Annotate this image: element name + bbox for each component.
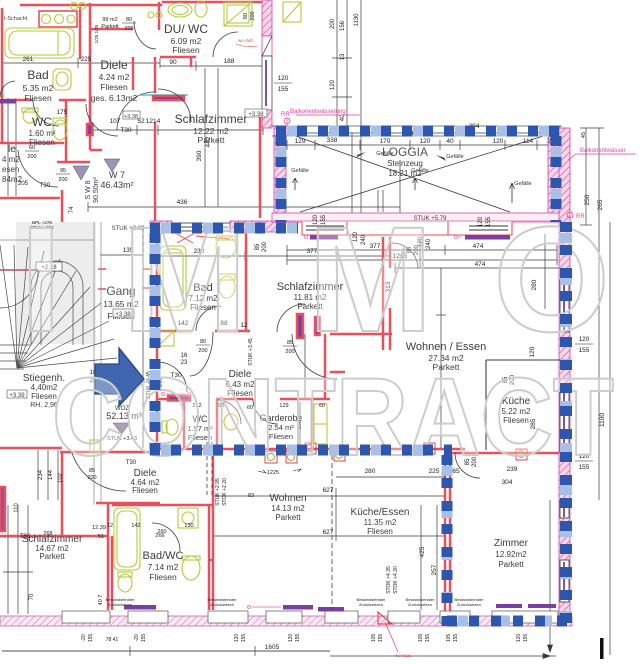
svg-text:wo caas: wo caas	[395, 653, 412, 658]
dimension kueche verticals	[440, 268, 442, 448]
svg-text:120: 120	[234, 634, 240, 643]
svg-text:STOK +4.35: STOK +4.35	[386, 566, 392, 594]
svg-text:Balkonentwässerung: Balkonentwässerung	[290, 109, 346, 115]
boundary mid vertical pale	[442, 455, 453, 626]
level box gang	[113, 309, 134, 317]
wall WC left	[183, 399, 186, 448]
wohnen/kueche-essen dashed divider	[331, 455, 333, 610]
boundary loggia right pale	[551, 136, 562, 222]
svg-text:78 41: 78 41	[106, 637, 119, 643]
svg-text:142: 142	[131, 523, 140, 529]
door arc Schlafzimmer SW	[277, 304, 305, 332]
sink WC topleft	[23, 109, 37, 123]
svg-text:155: 155	[88, 634, 94, 643]
boundary loggia top dark	[276, 126, 562, 137]
window bottom 1	[62, 611, 110, 623]
svg-text:+3.39: +3.39	[9, 393, 25, 399]
svg-text:12.92m2: 12.92m2	[495, 550, 527, 559]
dimension left bottom verticals	[7, 505, 9, 614]
svg-text:Zurücksetzen: Zurücksetzen	[359, 602, 383, 607]
svg-text:T30: T30	[20, 534, 31, 540]
bathtub top-left	[5, 28, 74, 58]
svg-text:Zurücksetzen: Zurücksetzen	[108, 602, 132, 607]
wall badwc inner stub	[208, 559, 213, 562]
svg-text:83: 83	[248, 493, 254, 499]
svg-text:170: 170	[380, 138, 391, 145]
svg-text:40 7: 40 7	[98, 595, 104, 606]
svg-text:Zurücksetzen: Zurücksetzen	[210, 602, 234, 607]
svg-text:T30: T30	[120, 127, 132, 134]
red corner flag zimmer	[378, 612, 392, 624]
door arc Bad middle	[190, 332, 213, 376]
boundary south main dark	[150, 445, 452, 456]
svg-text:268: 268	[43, 531, 52, 537]
svg-text:11.35 m2: 11.35 m2	[364, 518, 397, 527]
door arc left corridor	[86, 104, 118, 136]
purple bar corridor	[87, 124, 93, 135]
door arc Bad-WC topleft	[33, 100, 59, 126]
door arc badwc	[152, 523, 180, 551]
pink leader right	[568, 154, 636, 160]
svg-text:Bad/WC: Bad/WC	[143, 550, 184, 562]
door arc WC topleft entry	[0, 81, 15, 97]
svg-text:85: 85	[255, 243, 261, 250]
svg-text:14.13 m2: 14.13 m2	[271, 504, 305, 513]
svg-text:175: 175	[57, 109, 68, 116]
svg-text:155: 155	[278, 86, 289, 93]
svg-text:225: 225	[81, 56, 92, 63]
wall WC right	[65, 100, 68, 162]
svg-text:Zimmer: Zimmer	[494, 538, 529, 549]
boundary loggia top pale	[276, 126, 562, 137]
svg-text:155: 155	[523, 634, 529, 643]
wall left of Diele 4.24	[89, 3, 92, 150]
purple sill bottom 3	[496, 604, 522, 608]
svg-text:STOK +2.20: STOK +2.20	[222, 478, 228, 506]
wall diele464 bottom	[96, 502, 160, 505]
purple sill bottom 1	[124, 605, 156, 610]
svg-text:WC: WC	[32, 115, 52, 129]
svg-text:51: 51	[98, 534, 104, 540]
svg-text:Gefälle: Gefälle	[291, 168, 308, 174]
toilet WC center	[166, 419, 178, 435]
svg-text:338: 338	[327, 137, 338, 144]
svg-text:5.35 m2: 5.35 m2	[23, 83, 54, 93]
wall left corridor bottom	[57, 161, 90, 164]
svg-text:Gefälle: Gefälle	[446, 154, 463, 160]
wall schlafzimmer top left jog	[90, 149, 102, 152]
svg-text:esen: esen	[2, 165, 19, 174]
svg-text:200: 200	[27, 154, 36, 160]
wall badwc-bottom left	[107, 503, 110, 610]
boundary top main pale	[150, 223, 298, 234]
dimension loggia inner verticals	[351, 133, 353, 222]
svg-text:Küche/Essen: Küche/Essen	[351, 507, 410, 518]
door arc Bad up	[196, 306, 221, 331]
window bottom 6	[388, 611, 420, 623]
wall center apt left under dashes	[156, 225, 159, 362]
svg-text:120: 120	[516, 634, 522, 643]
bike box top right	[283, 2, 301, 22]
boundary bottom dark	[447, 616, 572, 627]
svg-text:wo-duft: wo-duft	[238, 38, 254, 43]
svg-text:155: 155	[453, 634, 459, 643]
blue arrow	[95, 348, 144, 406]
dimension under loggia chain	[160, 255, 390, 257]
wall right of Schlafzimmer-top	[259, 110, 262, 218]
svg-text:627: 627	[323, 487, 334, 494]
schlafzimmer-mid window dashed	[142, 228, 144, 250]
svg-text:200: 200	[124, 26, 133, 32]
wall stair top stub	[56, 230, 68, 233]
svg-text:474: 474	[473, 243, 484, 250]
pink circleline window1	[305, 236, 463, 239]
pink line under band	[272, 220, 560, 222]
terrace door frame	[347, 221, 448, 235]
stair stringer U	[41, 271, 73, 345]
bathtub Bad middle	[160, 246, 186, 310]
svg-text:200: 200	[330, 18, 336, 29]
dimension wohnen-essen inner	[419, 240, 421, 268]
svg-text:80: 80	[126, 17, 132, 23]
svg-text:120: 120	[330, 79, 336, 90]
loggia top thin lines	[272, 125, 562, 127]
wall exterior DU/WC right	[262, 0, 272, 36]
dimension gang verticals	[142, 228, 144, 448]
window top wall 1	[302, 221, 347, 235]
svg-text:Parkett: Parkett	[101, 24, 119, 30]
svg-text:105: 105	[446, 634, 452, 643]
svg-text:120: 120	[493, 138, 504, 145]
svg-text:Gefälle: Gefälle	[411, 168, 428, 174]
basin DU/WC	[168, 3, 192, 17]
outlet symbols south wall	[265, 443, 527, 463]
svg-text:200: 200	[250, 11, 256, 20]
svg-text:205: 205	[18, 181, 29, 187]
svg-text:155: 155	[486, 216, 492, 227]
svg-text:90: 90	[169, 59, 177, 66]
stair right wall	[93, 222, 95, 505]
wall sink counter box	[39, 11, 77, 27]
svg-text:234: 234	[38, 469, 44, 480]
svg-text:114: 114	[523, 138, 534, 145]
purple bar left edge low	[0, 487, 5, 531]
svg-text:Parkett: Parkett	[275, 513, 301, 522]
wall gang door frame marks	[98, 268, 106, 270]
svg-text:W 7: W 7	[109, 170, 125, 180]
window right 4	[560, 560, 569, 602]
window bottom 3	[208, 611, 248, 623]
wall WC bottom	[0, 142, 64, 145]
svg-text:474: 474	[475, 261, 486, 268]
level box stiegenhaus	[7, 390, 27, 398]
kueche partition	[485, 360, 487, 450]
svg-text:95: 95	[60, 168, 66, 174]
svg-text:45: 45	[581, 132, 587, 138]
svg-text:200: 200	[262, 241, 268, 252]
dimension schlafzimmer mid vertical	[204, 68, 206, 207]
boundary bottom pale	[447, 616, 572, 627]
svg-text:1605: 1605	[265, 644, 280, 651]
svg-text:12: 12	[107, 523, 113, 529]
toilet WC topleft	[53, 120, 67, 140]
svg-text:12.39: 12.39	[92, 525, 106, 531]
wall duct right of bath	[79, 7, 82, 59]
door arc apt entry	[157, 362, 187, 392]
toilet DU/WC	[195, 1, 207, 17]
svg-text:120: 120	[278, 75, 289, 82]
window right 2	[560, 390, 569, 452]
svg-text:STOK +4.20: STOK +4.20	[393, 566, 399, 594]
wall diele464 left	[61, 452, 64, 535]
wall top outer left	[20, 4, 162, 7]
stair level box +2.18	[36, 262, 62, 271]
svg-text:Fliesen: Fliesen	[100, 82, 128, 92]
bathtub badwc	[114, 508, 140, 570]
sink circles counter	[42, 15, 51, 24]
door arc DU/WC	[213, 32, 238, 57]
svg-text:CONTRACT: CONTRACT	[52, 356, 614, 479]
toilet badwc	[118, 574, 132, 592]
level box diele left	[123, 111, 140, 119]
svg-text:99 m2: 99 m2	[102, 17, 117, 23]
door arc Garderobe	[253, 399, 278, 424]
window bottom 8	[492, 611, 558, 623]
dimension line 436	[88, 206, 400, 208]
svg-text:Diele: Diele	[100, 58, 128, 72]
svg-text:ges. 6.13m2: ges. 6.13m2	[91, 93, 138, 103]
window bottom 4	[266, 611, 302, 623]
svg-text:Wohnen: Wohnen	[269, 493, 306, 504]
svg-text:DU/ WC: DU/ WC	[164, 22, 208, 36]
svg-text:40: 40	[446, 138, 454, 145]
svg-text:Fliesen: Fliesen	[24, 93, 52, 103]
door arc top corridor	[134, 21, 156, 49]
purple sill 306	[306, 227, 318, 231]
svg-text:105: 105	[418, 634, 424, 643]
boundary south main pale	[150, 445, 452, 456]
boundary left main dark	[150, 233, 161, 450]
washer badwc	[178, 508, 198, 528]
svg-text:85: 85	[287, 340, 293, 346]
svg-text:200: 200	[58, 177, 67, 183]
svg-text:257: 257	[431, 564, 438, 575]
door arc iele	[18, 150, 58, 187]
door arc Diele-Wohnen	[292, 334, 337, 379]
wall exterior bottom band	[0, 616, 572, 626]
svg-text:155: 155	[425, 634, 431, 643]
teal window line	[141, 94, 188, 96]
svg-text:7.14 m2: 7.14 m2	[148, 562, 179, 572]
wall apartment south under dashes	[150, 448, 465, 451]
svg-text:70: 70	[29, 593, 35, 600]
stair treads bottom-left	[0, 344, 30, 346]
boundary loggia left dark	[276, 136, 287, 222]
svg-text:120: 120	[288, 634, 294, 643]
triangle marker WOZ	[113, 423, 130, 434]
svg-text:le: le	[8, 144, 16, 155]
purple bar schlaf door	[297, 314, 303, 338]
boundary top main dark	[150, 223, 298, 234]
svg-text:260: 260	[157, 529, 166, 535]
triangle marker W7	[73, 166, 89, 180]
svg-text:188: 188	[224, 58, 235, 65]
svg-text:4.24 m2: 4.24 m2	[99, 72, 130, 82]
stair shading	[16, 222, 96, 344]
wall loggia floor band	[272, 213, 562, 222]
svg-text:Fliesen: Fliesen	[172, 45, 200, 55]
gefaelle arrows	[354, 152, 366, 158]
svg-text:200: 200	[285, 349, 294, 355]
window top wall 2	[448, 221, 512, 235]
boundary right main pale	[560, 222, 572, 626]
svg-text:52: 52	[137, 118, 145, 125]
wall WC/Garderobe top	[157, 398, 182, 401]
wall Diele/Schlafzimmer divider	[154, 57, 157, 93]
wall top outer DU/WC	[162, 1, 264, 4]
shower Bad corner	[158, 331, 174, 346]
purple sill window1	[310, 235, 338, 240]
boundary left main pale	[150, 233, 161, 450]
door arc Schlafzimmer mid	[392, 243, 418, 269]
dimension kueche/essen lines	[213, 495, 446, 497]
door arc WC center	[217, 400, 241, 424]
triangle marker W7b	[104, 159, 120, 172]
door arc diele464	[72, 453, 126, 491]
wall WC right	[216, 399, 219, 448]
svg-text:155: 155	[141, 634, 147, 643]
dimension bottom lines	[2, 650, 330, 652]
svg-text:155: 155	[378, 634, 384, 643]
window bottom 7	[440, 611, 470, 623]
svg-text:Parkett: Parkett	[498, 560, 524, 569]
dimension chain DU/WC bottom	[160, 65, 263, 67]
red demolition marks	[177, 234, 193, 243]
svg-text:Steinzeug: Steinzeug	[387, 159, 423, 168]
svg-text:T30: T30	[40, 183, 51, 189]
svg-text:120: 120	[478, 216, 484, 227]
pink RR right	[567, 212, 573, 218]
svg-text:1/25 1/25: 1/25 1/25	[94, 24, 99, 43]
svg-text:S W 8: S W 8	[85, 180, 92, 199]
svg-text:Balkonentwässer: Balkonentwässer	[580, 148, 626, 154]
svg-text:I-Schacht: I-Schacht	[4, 16, 28, 22]
svg-text:130: 130	[184, 523, 193, 529]
window right 1	[560, 280, 569, 332]
dimension zimmer verticals	[420, 505, 422, 610]
window bottom 5	[325, 611, 358, 623]
wall schlafzimmer-bottom top	[0, 535, 108, 538]
wall zimmer top	[448, 452, 565, 455]
pink RR circle top	[284, 118, 290, 124]
black bar bottom right	[600, 638, 604, 659]
wall diele464 top	[60, 451, 160, 454]
dimension chain top-left rooms	[2, 62, 160, 64]
svg-text:Fliesen: Fliesen	[367, 527, 393, 536]
svg-text:80: 80	[243, 13, 249, 19]
wall left block stub	[0, 197, 60, 200]
pink track WC	[162, 393, 191, 396]
window bottom 2	[128, 611, 168, 623]
svg-text:Parkett: Parkett	[39, 552, 65, 561]
window right 3	[560, 500, 569, 518]
shower DU/WC	[224, 2, 252, 26]
svg-text:129: 129	[295, 138, 306, 145]
svg-text:+3.38: +3.38	[124, 114, 138, 120]
dimension verticals upper center	[336, 0, 338, 128]
basin badwc	[182, 556, 200, 580]
purple bar schlafzimmer door	[153, 96, 184, 100]
svg-text:Zurücksetzen: Zurücksetzen	[457, 602, 481, 607]
boundary right main dark	[560, 222, 572, 626]
basin Bad middle	[216, 236, 236, 258]
dimension 474 inner	[395, 267, 560, 269]
dimension right side lower	[598, 262, 600, 500]
dimension left mid verticals	[37, 450, 39, 500]
wall Bad/WC divider	[0, 99, 33, 102]
door arc wohnen-essen south	[455, 453, 480, 478]
svg-text:-20: -20	[134, 634, 140, 641]
wall Schlafzimmer mid south	[330, 333, 392, 336]
svg-text:RR: RR	[281, 112, 290, 118]
wall Garderobe right	[311, 399, 314, 448]
svg-text:STUK +2.95: STUK +2.95	[215, 478, 221, 506]
svg-text:46.43m²: 46.43m²	[100, 180, 133, 190]
svg-text:13: 13	[340, 53, 346, 60]
stair fan rays	[0, 245, 17, 368]
svg-text:Gefälle: Gefälle	[514, 181, 531, 187]
wall exterior apt top left of loggia	[150, 221, 172, 232]
svg-text:+3.38: +3.38	[248, 112, 264, 118]
purple sill window2	[465, 235, 510, 240]
svg-text:304: 304	[502, 479, 513, 486]
door arc into Diele	[117, 92, 155, 130]
svg-text:Bad: Bad	[27, 68, 48, 82]
purple sill bottom 2	[283, 605, 313, 610]
basin Bad topleft	[53, 69, 71, 90]
svg-text:155: 155	[241, 634, 247, 643]
svg-text:60: 60	[29, 145, 35, 151]
svg-text:156: 156	[340, 20, 346, 31]
svg-text:1.60 m²: 1.60 m²	[28, 129, 55, 138]
svg-text:4 m2: 4 m2	[2, 155, 20, 164]
wall badwc right	[212, 452, 215, 610]
svg-text:-20: -20	[81, 634, 87, 641]
pink leader top	[286, 118, 288, 126]
wall exterior right column	[559, 128, 570, 625]
wall Schlafzimmer/Wohnen divider	[382, 237, 385, 350]
stair entry door arc	[0, 270, 38, 308]
svg-text:107: 107	[110, 118, 121, 125]
wall Bad middle south	[157, 330, 192, 333]
dimension loggia chain	[287, 144, 557, 146]
icons top small	[71, 3, 78, 10]
purple sill bottom 4	[528, 604, 556, 608]
dimension loggia diagonals	[287, 133, 510, 212]
wall Bad/Schlafzimmer divider	[245, 230, 248, 331]
sink nook left	[90, 440, 100, 452]
stair top edge	[0, 239, 94, 241]
wall loggia left hatched	[274, 126, 286, 222]
svg-text:627: 627	[323, 529, 334, 536]
purple bar WC door	[168, 396, 190, 401]
boundary loggia right dark	[551, 136, 562, 222]
wall badwc top	[112, 504, 213, 507]
svg-text:Schlafzimmer: Schlafzimmer	[175, 112, 248, 126]
wall DU/WC bottom	[160, 56, 196, 59]
svg-text:Fliesen: Fliesen	[132, 486, 158, 495]
level box diele top	[245, 109, 267, 117]
